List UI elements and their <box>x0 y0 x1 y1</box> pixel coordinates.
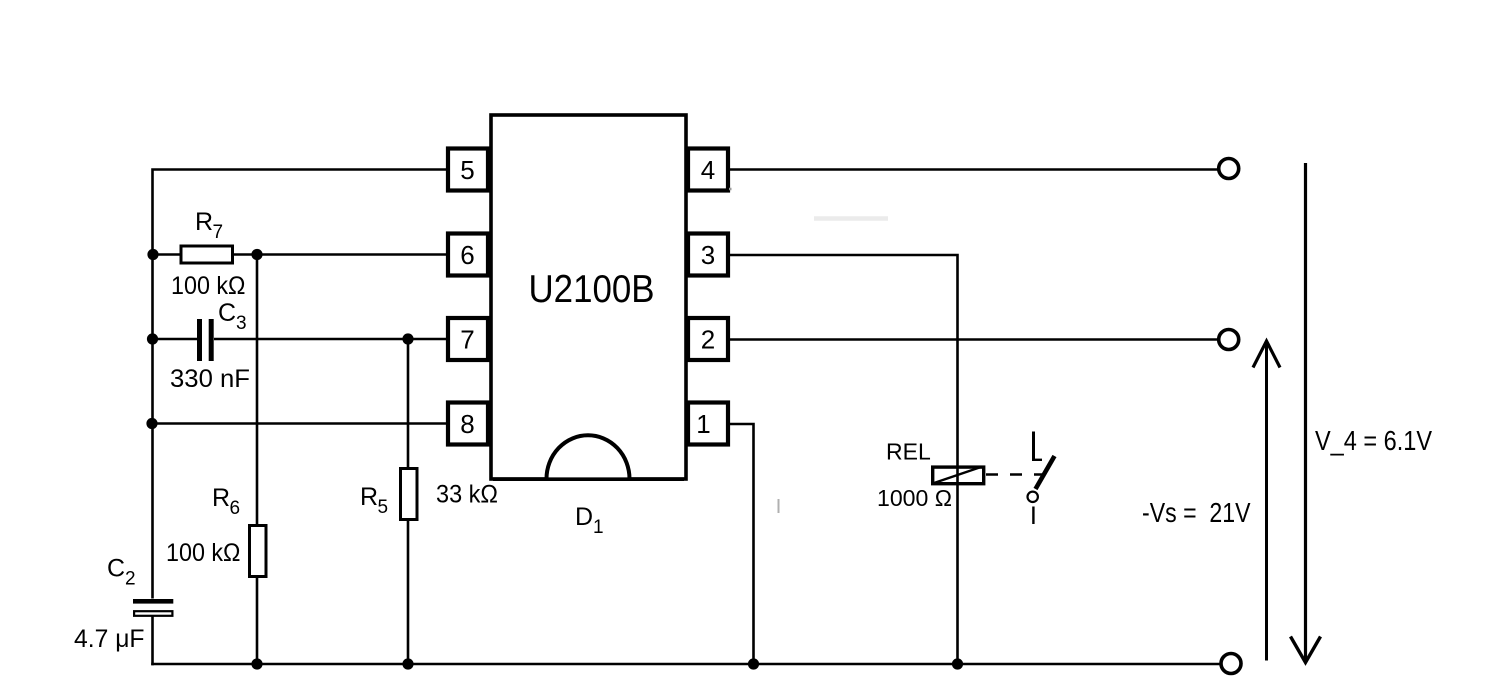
svg-text:6: 6 <box>460 240 474 270</box>
svg-text:1000 Ω: 1000 Ω <box>877 485 952 511</box>
svg-text:1: 1 <box>696 409 710 439</box>
svg-text:R: R <box>212 484 230 512</box>
svg-text:100 kΩ: 100 kΩ <box>166 539 241 567</box>
svg-text:3: 3 <box>236 313 247 334</box>
svg-text:U2100B: U2100B <box>529 268 655 311</box>
svg-text:C: C <box>218 299 236 327</box>
svg-text:7: 7 <box>213 222 224 243</box>
svg-text:2: 2 <box>125 569 136 590</box>
svg-text:7: 7 <box>460 325 474 355</box>
svg-text:100 kΩ: 100 kΩ <box>171 272 246 300</box>
svg-text:6: 6 <box>230 498 241 519</box>
svg-text:REL: REL <box>886 439 931 465</box>
svg-text:V_4 = 6.1V: V_4 = 6.1V <box>1315 425 1433 456</box>
svg-text:33 kΩ: 33 kΩ <box>436 481 498 509</box>
svg-text:R: R <box>360 483 378 511</box>
svg-text:330 nF: 330 nF <box>170 365 250 393</box>
svg-text:4.7 μF: 4.7 μF <box>74 625 145 653</box>
svg-text:-Vs = 21V: -Vs = 21V <box>1142 497 1251 528</box>
svg-text:4: 4 <box>701 155 715 185</box>
svg-text:5: 5 <box>460 155 474 185</box>
svg-text:3: 3 <box>701 240 715 270</box>
svg-text:D: D <box>575 503 593 531</box>
svg-text:8: 8 <box>460 409 474 439</box>
svg-text:1: 1 <box>593 517 604 538</box>
svg-text:2: 2 <box>701 325 715 355</box>
svg-text:C: C <box>107 555 125 583</box>
svg-text:5: 5 <box>378 497 389 518</box>
svg-text:R: R <box>195 208 213 236</box>
